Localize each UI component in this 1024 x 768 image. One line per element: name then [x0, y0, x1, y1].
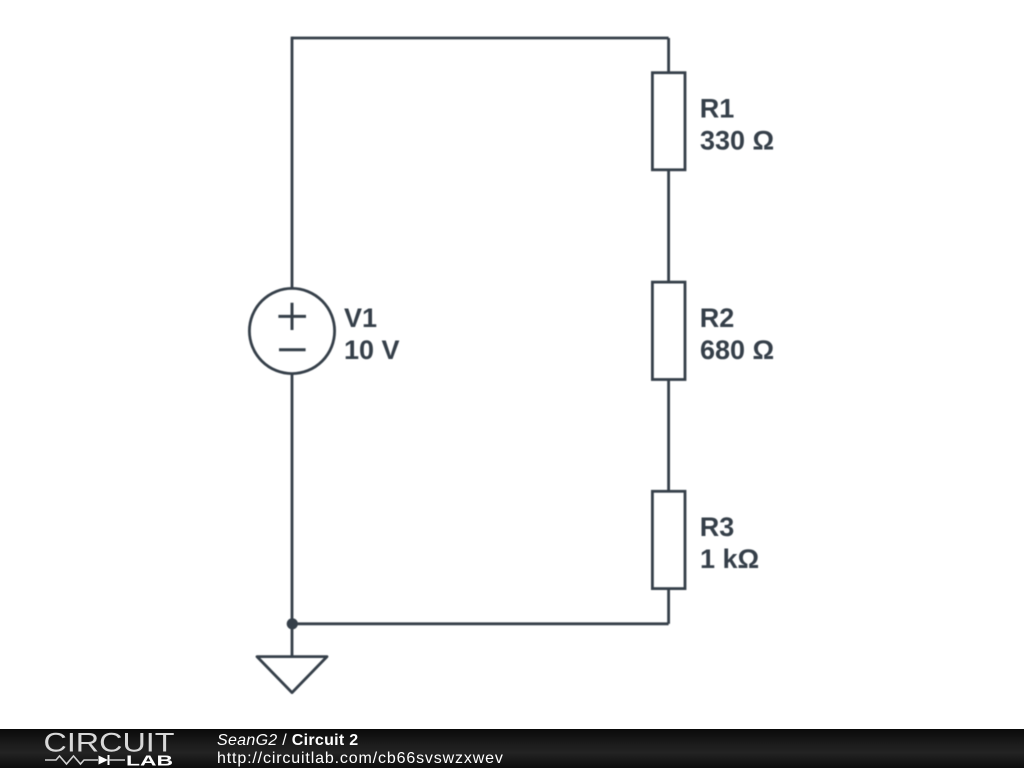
resistor zigzag	[45, 756, 98, 764]
resistor R3	[652, 491, 685, 588]
wire bottom horizontal	[292, 622, 669, 625]
footer bar	[0, 729, 1024, 768]
svg-text:R3: R3	[700, 512, 735, 542]
svg-text:330 Ω: 330 Ω	[700, 126, 774, 156]
wire R1 to R2	[667, 170, 670, 282]
svg-text:R2: R2	[700, 303, 735, 333]
node junction dot	[287, 618, 298, 629]
resistor R1	[652, 73, 685, 170]
svg-text:LAB: LAB	[126, 752, 173, 768]
ground	[257, 657, 327, 693]
svg-text:V1: V1	[344, 303, 377, 333]
label V1	[344, 94, 774, 574]
wire ground stub	[291, 624, 294, 657]
wire left vertical lower	[291, 373, 294, 623]
resistor R2	[652, 282, 685, 379]
wire R2 to R3	[667, 380, 670, 492]
wire right vertical top to R1	[667, 38, 670, 73]
wire R3 to bottom	[667, 589, 670, 624]
wire top horizontal	[292, 37, 669, 40]
diode	[99, 756, 109, 765]
wire left vertical upper	[291, 37, 294, 289]
svg-text:R1: R1	[700, 94, 735, 124]
CircuitLab logo	[0, 729, 200, 768]
svg-text:10 V: 10 V	[344, 335, 400, 365]
voltage source V1	[249, 288, 334, 373]
svg-text:680 Ω: 680 Ω	[700, 335, 774, 365]
svg-text:1 kΩ: 1 kΩ	[700, 544, 759, 574]
